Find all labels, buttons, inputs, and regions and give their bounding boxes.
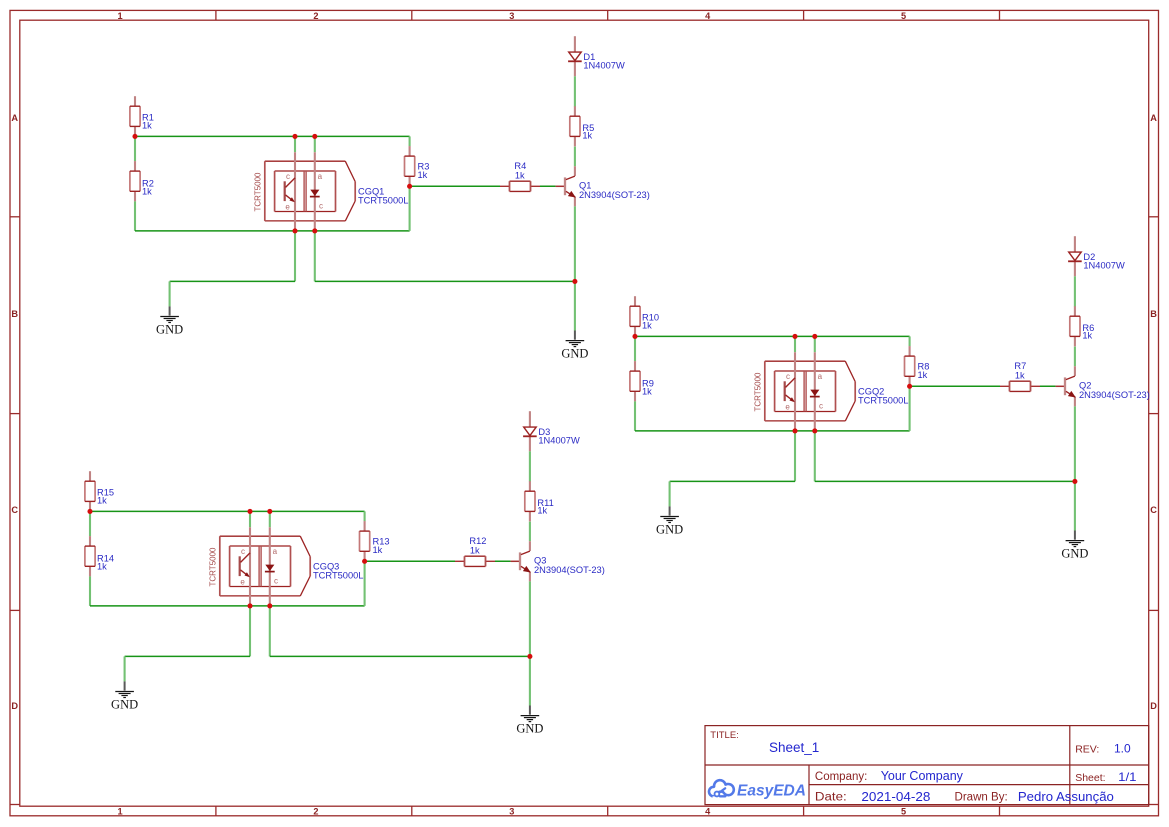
circuit instance 2 (CGQ2) [630,236,1089,560]
svg-text:C: C [11,505,18,515]
svg-text:1k: 1k [142,121,152,131]
ground left [156,306,183,336]
wire top rail to R3 [409,136,411,146]
svg-text:2N3904(SOT-23): 2N3904(SOT-23) [579,190,650,200]
junction R1-R2-rail [132,134,137,139]
wire bottom rail [135,230,410,232]
svg-text:1k: 1k [918,370,928,380]
svg-text:Sheet:: Sheet: [1075,772,1105,784]
svg-text:EasyEDA: EasyEDA [737,782,806,799]
junction pinA-bottom rail [292,228,297,233]
ground right [561,331,588,361]
wire opto emitter to gnd run [294,231,296,282]
svg-text:TCRT5000: TCRT5000 [254,172,263,212]
svg-text:1: 1 [117,807,122,817]
wire Q emitter down [574,206,576,281]
svg-text:1k: 1k [582,130,592,140]
junction pinA-rail [292,134,297,139]
wire down to left gnd [169,281,171,306]
svg-text:5: 5 [901,807,906,817]
svg-text:A: A [1150,113,1157,123]
resistor R4 [500,181,540,191]
wire R5 to Q collector [574,147,576,167]
svg-text:1k: 1k [142,187,152,197]
svg-text:Pedro Assunção: Pedro Assunção [1018,790,1114,804]
wire cathode to emitter node [315,280,575,282]
wire R1-R2 [134,136,136,161]
optocoupler inner labels [285,172,323,211]
svg-text:1k: 1k [97,496,107,506]
svg-text:4: 4 [705,11,711,21]
junction pinB-rail [312,134,317,139]
EasyEDA logo [709,780,734,801]
svg-text:3: 3 [509,11,514,21]
resistor R5 [570,106,580,146]
svg-text:2: 2 [313,807,318,817]
svg-text:a: a [318,172,323,181]
svg-text:1k: 1k [642,387,652,397]
svg-text:1k: 1k [1015,370,1025,380]
svg-text:REV:: REV: [1075,744,1099,756]
svg-text:Date:: Date: [815,792,847,804]
wire optocoupler pin A to top rail [294,136,296,152]
svg-text:1N4007W: 1N4007W [538,436,580,446]
svg-text:Drawn By:: Drawn By: [955,792,1008,804]
wire opto cathode down [314,231,316,282]
svg-text:1k: 1k [97,562,107,572]
resistor R2 [130,161,140,201]
svg-text:1k: 1k [642,321,652,331]
svg-text:1k: 1k [1082,330,1092,340]
svg-text:C: C [1150,505,1157,515]
svg-text:B: B [1150,309,1157,319]
optocoupler CGQ1 body [265,160,346,162]
transistor Q1 [574,166,576,176]
title block [705,726,1149,805]
svg-text:3: 3 [509,807,514,817]
resistor R1 [130,96,140,136]
optocoupler LED [310,190,319,196]
svg-text:Company:: Company: [815,771,867,783]
optocoupler pins [294,152,296,231]
svg-text:Your Company: Your Company [881,769,964,783]
svg-text:1N4007W: 1N4007W [1083,261,1125,271]
svg-text:TCRT5000L: TCRT5000L [858,396,908,406]
svg-text:1: 1 [117,11,122,21]
svg-text:1k: 1k [515,170,525,180]
resistor R3 [405,146,415,186]
svg-text:1.0: 1.0 [1114,741,1131,755]
junction R3-R4 node [407,184,412,189]
svg-text:4: 4 [705,807,711,817]
svg-text:1k: 1k [418,170,428,180]
wire R4 to Q base [540,185,556,187]
svg-text:c: c [286,172,290,181]
svg-text:2021-04-28: 2021-04-28 [861,790,930,804]
svg-text:e: e [285,202,290,211]
svg-text:1k: 1k [537,505,547,515]
svg-text:5: 5 [901,11,906,21]
svg-text:2N3904(SOT-23): 2N3904(SOT-23) [1079,390,1150,400]
svg-text:B: B [11,309,18,319]
wire R2 to bottom rail [134,201,136,231]
svg-text:A: A [11,113,18,123]
svg-text:D: D [1150,701,1157,711]
circuit instance 3 (CGQ3) [85,411,544,735]
wire emitter node to gnd [574,281,576,330]
diode D1 [574,36,576,52]
wire optocoupler pin B to top rail [314,136,316,152]
wire gnd run horizontal [170,280,295,282]
junction pinB-bottom rail [312,228,317,233]
svg-text:TCRT5000L: TCRT5000L [313,571,363,581]
svg-text:2N3904(SOT-23): 2N3904(SOT-23) [534,565,605,575]
wire R3 node to R4 [410,185,500,187]
svg-text:1k: 1k [373,545,383,555]
svg-text:1k: 1k [470,545,480,555]
wire R3 to bottom rail [409,186,411,231]
svg-text:Sheet_1: Sheet_1 [769,740,819,755]
svg-text:1/1: 1/1 [1118,770,1137,784]
svg-text:2: 2 [313,11,318,21]
svg-text:D: D [11,701,18,711]
junction emitter-gnd node [572,279,577,284]
wire D to R5 [574,76,576,106]
svg-text:c: c [319,201,323,210]
wire top rail [135,135,410,137]
svg-text:TITLE:: TITLE: [710,730,739,741]
svg-text:TCRT5000L: TCRT5000L [358,196,408,206]
svg-text:1N4007W: 1N4007W [583,61,625,71]
optocoupler phototransistor [284,181,286,201]
